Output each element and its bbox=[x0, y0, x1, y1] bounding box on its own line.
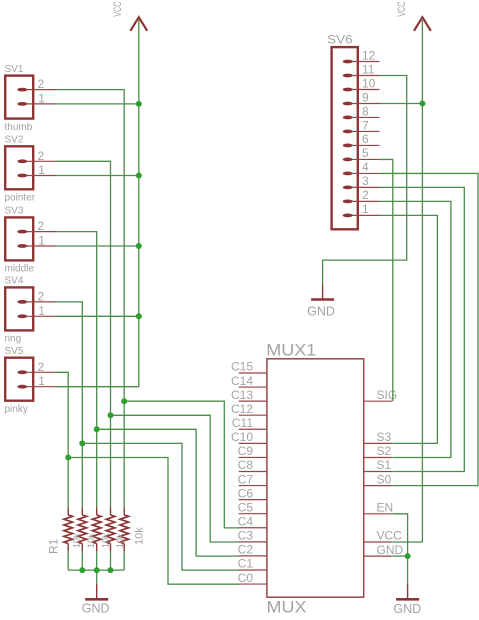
pin 6 of SV6 bbox=[343, 144, 380, 148]
svg-text:2: 2 bbox=[362, 188, 369, 202]
connector SV1 bbox=[5, 76, 33, 119]
svg-text:9: 9 bbox=[362, 90, 369, 104]
svg-text:C13: C13 bbox=[231, 388, 253, 402]
junction on GND rail bbox=[79, 567, 85, 573]
svg-text:10k: 10k bbox=[86, 533, 96, 548]
svg-text:S1: S1 bbox=[377, 458, 392, 472]
pin 10 of SV6 bbox=[343, 88, 380, 92]
wire net SIG: SV6 pin5 to MUX SIG bbox=[380, 159, 393, 401]
svg-text:S0: S0 bbox=[377, 472, 392, 486]
svg-text:middle: middle bbox=[5, 264, 35, 275]
wire MUX GND pin row bbox=[392, 555, 407, 557]
pin EN of MUX1 bbox=[364, 513, 392, 515]
pin C13 of MUX1 bbox=[239, 400, 267, 402]
svg-text:2: 2 bbox=[38, 149, 45, 163]
wire MUX EN to ground bbox=[392, 514, 407, 556]
svg-text:S2: S2 bbox=[377, 444, 392, 458]
wire net SENSOR5: resistor bottom lead to GND rail bbox=[67, 551, 69, 570]
svg-text:3: 3 bbox=[362, 174, 369, 188]
svg-text:5: 5 bbox=[362, 146, 369, 160]
svg-text:10: 10 bbox=[362, 76, 376, 90]
pin C6 of MUX1 bbox=[239, 499, 267, 501]
resistor R5 leads bbox=[67, 508, 69, 552]
junction node SENSOR1 bbox=[121, 398, 127, 404]
svg-text:SV6: SV6 bbox=[327, 33, 353, 47]
wire net SENSOR1: branch to MUX input bbox=[124, 401, 239, 528]
pin C1 of MUX1 bbox=[239, 569, 267, 571]
wire net SENSOR5: branch to MUX input bbox=[68, 458, 239, 585]
wire MUX GND down to ground symbol bbox=[407, 556, 409, 584]
svg-text:C0: C0 bbox=[238, 571, 254, 585]
wire net SENSOR3: SV3 pin2 down to resistor column bbox=[56, 232, 97, 508]
VCC symbol (right) arrow bbox=[414, 17, 431, 31]
wire net S0: SV6 pin4 to MUX S0 bbox=[380, 173, 479, 485]
pin 1 of SV6 bbox=[343, 213, 380, 217]
svg-text:1: 1 bbox=[38, 91, 45, 105]
resistor R1 zigzag bbox=[120, 515, 129, 544]
wire SV6 pin9 to VCC bbox=[380, 102, 423, 104]
wire net SENSOR2: branch to MUX input bbox=[111, 415, 240, 542]
pin 9 of SV6 bbox=[343, 102, 380, 106]
pin 2 of SV1 bbox=[17, 88, 56, 92]
svg-text:pinky: pinky bbox=[5, 404, 28, 415]
svg-text:1: 1 bbox=[38, 304, 45, 318]
svg-text:2: 2 bbox=[38, 77, 45, 91]
pin C0 of MUX1 bbox=[239, 583, 267, 585]
svg-text:SIG: SIG bbox=[377, 388, 398, 402]
svg-text:1: 1 bbox=[38, 374, 45, 388]
pin 3 of SV6 bbox=[343, 186, 380, 190]
junction on VCC net bbox=[136, 101, 142, 107]
wire SV4 pin1 to VCC bbox=[56, 315, 139, 317]
svg-text:C9: C9 bbox=[238, 444, 254, 458]
connector SV4 bbox=[5, 287, 33, 330]
pin 5 of SV6 bbox=[343, 158, 380, 162]
wire net SENSOR3: branch to MUX input bbox=[97, 429, 240, 556]
pin 2 of SV5 bbox=[17, 370, 56, 374]
wire GND rail under resistors bbox=[68, 569, 124, 571]
svg-text:2: 2 bbox=[38, 219, 45, 233]
op-amp/IC MUX1 body bbox=[267, 359, 364, 597]
pin C11 of MUX1 bbox=[239, 428, 267, 430]
ground symbol (SV6) bbox=[311, 285, 334, 300]
pin 1 of SV2 bbox=[17, 174, 56, 178]
pin 2 of SV3 bbox=[17, 230, 56, 234]
junction node SENSOR3 bbox=[94, 426, 100, 432]
svg-text:MUX1: MUX1 bbox=[266, 341, 316, 359]
svg-text:SV4: SV4 bbox=[5, 276, 24, 287]
wire net S2: SV6 pin2 to MUX S2 bbox=[380, 201, 451, 457]
wire net SENSOR2: resistor bottom lead to GND rail bbox=[110, 551, 112, 570]
pin S3 of MUX1 bbox=[364, 442, 392, 444]
pin S2 of MUX1 bbox=[364, 457, 392, 459]
resistor R2 zigzag bbox=[106, 515, 115, 544]
pin 1 of SV4 bbox=[17, 314, 56, 318]
pin SIG of MUX1 bbox=[364, 400, 392, 402]
wire net SENSOR4: resistor bottom lead to GND rail bbox=[81, 551, 83, 570]
wire SV2 pin1 to VCC bbox=[56, 175, 139, 177]
connector SV5 bbox=[5, 358, 33, 401]
wire net SENSOR2: SV2 pin2 down to resistor column bbox=[56, 161, 111, 507]
ground symbol (left, resistor rail) bbox=[85, 584, 108, 599]
connector SV2 bbox=[5, 146, 33, 189]
svg-text:C14: C14 bbox=[231, 374, 253, 388]
resistor R4 leads bbox=[81, 508, 83, 552]
pin 1 of SV5 bbox=[17, 385, 56, 389]
svg-text:GND: GND bbox=[82, 601, 110, 615]
wire net S1: SV6 pin3 to MUX S1 bbox=[380, 187, 465, 471]
junction on GND rail bbox=[94, 567, 100, 573]
svg-text:12: 12 bbox=[362, 48, 376, 62]
resistor R3 zigzag bbox=[92, 515, 101, 544]
pin C9 of MUX1 bbox=[239, 456, 267, 458]
svg-text:2: 2 bbox=[38, 289, 45, 303]
svg-text:6: 6 bbox=[362, 132, 369, 146]
pin 11 of SV6 bbox=[343, 74, 380, 78]
svg-text:C3: C3 bbox=[238, 529, 254, 543]
junction MUX GND/EN bbox=[405, 553, 411, 559]
pin C3 of MUX1 bbox=[239, 541, 267, 543]
pin 4 of SV6 bbox=[343, 172, 380, 176]
pin C12 of MUX1 bbox=[239, 414, 267, 416]
junction on VCC net bbox=[136, 173, 142, 179]
wire net SENSOR1: SV1 pin2 down to resistor column bbox=[56, 90, 124, 508]
pin C2 of MUX1 bbox=[239, 555, 267, 557]
wire net SENSOR3: resistor bottom lead to GND rail bbox=[96, 551, 98, 570]
svg-text:GND: GND bbox=[393, 602, 421, 616]
svg-text:SV5: SV5 bbox=[5, 346, 24, 357]
pin 2 of SV2 bbox=[17, 159, 56, 163]
svg-text:10k: 10k bbox=[115, 533, 125, 548]
svg-text:C4: C4 bbox=[238, 514, 254, 528]
svg-text:VCC: VCC bbox=[377, 529, 403, 543]
pin 7 of SV6 bbox=[343, 130, 380, 134]
svg-text:10k: 10k bbox=[134, 527, 146, 545]
connector SV6 bbox=[332, 47, 358, 229]
svg-text:SV1: SV1 bbox=[5, 64, 24, 75]
svg-text:C12: C12 bbox=[231, 402, 253, 416]
wire VCC net vertical (right) bbox=[392, 20, 422, 542]
pin S0 of MUX1 bbox=[364, 485, 392, 487]
svg-text:C8: C8 bbox=[238, 458, 254, 472]
wire SV1 pin1 to VCC bbox=[56, 103, 139, 105]
junction on VCC net bbox=[136, 243, 142, 249]
svg-text:VCC: VCC bbox=[396, 2, 408, 17]
resistor R2 leads bbox=[110, 508, 112, 552]
pin VCC of MUX1 bbox=[364, 541, 392, 543]
pin C4 of MUX1 bbox=[239, 527, 267, 529]
pin 12 of SV6 bbox=[343, 60, 380, 64]
junction on GND rail bbox=[108, 567, 114, 573]
junction SV6 pin9 VCC bbox=[419, 100, 425, 106]
pin 1 of SV3 bbox=[17, 244, 56, 248]
svg-text:1: 1 bbox=[38, 234, 45, 248]
pin GND of MUX1 bbox=[364, 555, 392, 557]
svg-text:11: 11 bbox=[362, 62, 375, 76]
svg-text:GND: GND bbox=[377, 543, 404, 557]
connector SV3 bbox=[5, 217, 33, 260]
svg-text:C15: C15 bbox=[231, 360, 253, 374]
svg-text:SV3: SV3 bbox=[5, 206, 24, 217]
pin S1 of MUX1 bbox=[364, 471, 392, 473]
svg-text:1: 1 bbox=[362, 202, 369, 216]
pin 1 of SV1 bbox=[17, 102, 56, 106]
junction node SENSOR5 bbox=[65, 455, 71, 461]
svg-text:C2: C2 bbox=[238, 543, 254, 557]
svg-text:C1: C1 bbox=[238, 557, 254, 571]
svg-text:10k: 10k bbox=[71, 533, 81, 548]
junction node SENSOR2 bbox=[108, 412, 114, 418]
svg-text:S3: S3 bbox=[377, 430, 392, 444]
ground symbol (MUX) bbox=[396, 584, 419, 599]
VCC symbol (left) arrow bbox=[130, 17, 147, 31]
resistor R3 leads bbox=[96, 508, 98, 552]
svg-text:7: 7 bbox=[362, 118, 369, 132]
wire net S3: SV6 pin1 to MUX S3 bbox=[380, 215, 438, 443]
svg-text:C11: C11 bbox=[232, 416, 253, 430]
pin C7 of MUX1 bbox=[239, 485, 267, 487]
pin C15 of MUX1 bbox=[239, 372, 267, 374]
resistor R5 zigzag bbox=[64, 515, 73, 544]
svg-text:10k: 10k bbox=[100, 533, 110, 548]
wire SV6 pin11 to ground bbox=[323, 75, 407, 284]
junction node SENSOR4 bbox=[79, 440, 85, 446]
pin 2 of SV6 bbox=[343, 200, 380, 204]
svg-text:GND: GND bbox=[307, 305, 335, 319]
wire SV3 pin1 to VCC bbox=[56, 245, 139, 247]
pin C8 of MUX1 bbox=[239, 470, 267, 472]
svg-text:4: 4 bbox=[362, 160, 369, 174]
svg-text:R1: R1 bbox=[46, 538, 60, 554]
svg-text:MUX: MUX bbox=[267, 598, 307, 617]
pin C14 of MUX1 bbox=[239, 386, 267, 388]
svg-text:1: 1 bbox=[38, 163, 45, 177]
svg-text:C7: C7 bbox=[238, 472, 254, 486]
svg-text:pointer: pointer bbox=[5, 193, 36, 204]
svg-text:thumb: thumb bbox=[5, 122, 33, 133]
resistor R1 leads bbox=[123, 508, 125, 552]
junction on VCC net bbox=[136, 313, 142, 319]
svg-text:SV2: SV2 bbox=[5, 135, 24, 146]
svg-text:2: 2 bbox=[38, 360, 45, 374]
pin 8 of SV6 bbox=[343, 116, 380, 120]
wire net SENSOR1: resistor bottom lead to GND rail bbox=[123, 551, 125, 570]
svg-text:C10: C10 bbox=[231, 430, 253, 444]
svg-text:C5: C5 bbox=[238, 500, 254, 514]
svg-text:ring: ring bbox=[5, 334, 22, 345]
wire net SENSOR4: branch to MUX input bbox=[82, 443, 239, 570]
svg-text:C6: C6 bbox=[238, 486, 254, 500]
pin 2 of SV4 bbox=[17, 300, 56, 304]
resistor R4 zigzag bbox=[78, 515, 87, 544]
pin C5 of MUX1 bbox=[239, 513, 267, 515]
wire GND rail stub down bbox=[96, 570, 98, 584]
svg-text:VCC: VCC bbox=[112, 2, 124, 17]
wire VCC net vertical (left) bbox=[138, 20, 140, 387]
pin C10 of MUX1 bbox=[239, 442, 267, 444]
svg-text:EN: EN bbox=[377, 501, 394, 515]
svg-text:8: 8 bbox=[362, 104, 369, 118]
wire net SENSOR4: SV4 pin2 down to resistor column bbox=[56, 302, 82, 508]
wire net SENSOR5: SV5 pin2 down to resistor column bbox=[56, 372, 68, 507]
wire SV5 pin1 to VCC bbox=[56, 386, 139, 388]
